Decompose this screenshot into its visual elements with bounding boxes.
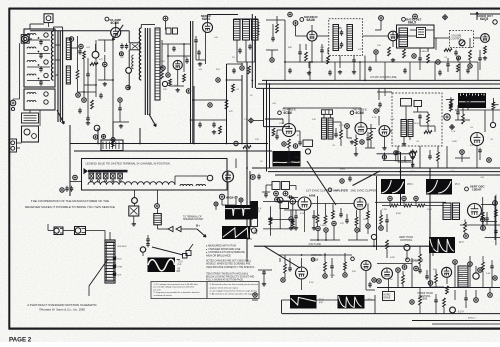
- svg-text:47K: 47K: [216, 69, 220, 71]
- svg-text:100K: 100K: [427, 209, 433, 211]
- svg-text:GRN: GRN: [118, 267, 123, 269]
- svg-text:10K: 10K: [312, 119, 316, 121]
- svg-text:A PHOTOFACT STANDARD NOTATION: A PHOTOFACT STANDARD NOTATION SCHEMATIC: [27, 303, 97, 307]
- svg-text:HORIZ: HORIZ: [384, 294, 392, 296]
- svg-text:6.8K: 6.8K: [486, 273, 491, 275]
- svg-text:56K: 56K: [433, 269, 437, 271]
- svg-text:2. Frequency was parallel for: 2. Frequency was parallel for schematics…: [154, 291, 201, 294]
- svg-text:4.7K: 4.7K: [372, 117, 377, 119]
- svg-text:2.2M: 2.2M: [382, 209, 387, 211]
- svg-text:BELOW LOOKING PRODUCTS SOCKET: BELOW LOOKING PRODUCTS SOCKET AND: [206, 276, 255, 279]
- svg-text:ITEM STRING TAKEN WITH VAC: ITEM STRING TAKEN WITH VACUUM &: [206, 272, 248, 275]
- svg-text:2ND SYNC CLIPPER: 2ND SYNC CLIPPER: [351, 188, 377, 192]
- svg-text:SPEAKER SOCKET: SPEAKER SOCKET: [183, 218, 204, 221]
- svg-text:47K: 47K: [99, 59, 103, 61]
- svg-text:B+: B+: [196, 224, 200, 228]
- svg-text:33K: 33K: [352, 271, 356, 273]
- svg-text:22K: 22K: [163, 89, 167, 91]
- svg-text:27K: 27K: [340, 223, 344, 225]
- svg-text:10K: 10K: [377, 45, 381, 47]
- svg-text:P-P: P-P: [319, 303, 323, 305]
- svg-text:6AL5: 6AL5: [311, 257, 319, 261]
- svg-text:P-P: P-P: [254, 234, 258, 236]
- svg-text:3. Measured values are those: 3. Measured values are those stated plus…: [210, 283, 259, 286]
- svg-text:820K: 820K: [396, 213, 402, 215]
- svg-text:100K: 100K: [452, 141, 458, 143]
- svg-text:6CB6: 6CB6: [284, 111, 293, 115]
- svg-text:1 MEG: 1 MEG: [420, 51, 427, 53]
- svg-text:6CB6: 6CB6: [111, 21, 120, 25]
- svg-text:P-P: P-P: [178, 265, 182, 267]
- svg-text:6AQ5: 6AQ5: [480, 17, 488, 21]
- svg-text:NOTES CHANGES ARE NOT USED IN: NOTES CHANGES ARE NOT USED IN ALL: [206, 260, 252, 263]
- svg-text:6.3 V: 6.3 V: [458, 311, 464, 314]
- svg-text:6AF4: 6AF4: [202, 17, 210, 21]
- svg-text:LEGEND: BLUE TIE GASTED TERMI: LEGEND: BLUE TIE GASTED TERMINAL IN CHAN…: [86, 162, 170, 166]
- svg-text:39K: 39K: [295, 157, 299, 159]
- svg-text:2.2K: 2.2K: [451, 131, 456, 133]
- svg-text:32 V: 32 V: [459, 242, 464, 244]
- svg-text:35 V: 35 V: [455, 184, 460, 186]
- svg-text:47K: 47K: [358, 49, 362, 51]
- svg-text:CONTROL: CONTROL: [400, 239, 413, 242]
- svg-text:1.5K: 1.5K: [244, 119, 249, 121]
- svg-text:BLK: BLK: [118, 275, 123, 277]
- svg-text:BLU: BLU: [118, 259, 123, 261]
- svg-text:8.2K: 8.2K: [309, 282, 314, 284]
- svg-text:as bottom of socket.: as bottom of socket.: [154, 294, 173, 297]
- svg-text:47K: 47K: [229, 111, 233, 113]
- svg-text:1.5K: 1.5K: [183, 57, 188, 59]
- svg-text:5%: 5%: [232, 57, 235, 59]
- svg-text:6AN8: 6AN8: [309, 194, 316, 197]
- svg-text:250V: 250V: [410, 171, 416, 173]
- svg-text:USED PROVIDE CORRECTLY THE SPE: USED PROVIDE CORRECTLY THE SPECIFIC: [206, 267, 255, 269]
- svg-text:250K: 250K: [422, 298, 428, 301]
- svg-text:1.5K: 1.5K: [390, 119, 395, 121]
- svg-text:VOLUME: VOLUME: [452, 36, 462, 38]
- svg-text:220K: 220K: [160, 61, 166, 63]
- svg-text:10K: 10K: [120, 57, 124, 59]
- svg-text:SD-07: SD-07: [414, 123, 421, 125]
- svg-text:47K: 47K: [470, 145, 474, 147]
- svg-text:165 V: 165 V: [407, 184, 413, 186]
- svg-text:7.5 V: 7.5 V: [178, 262, 184, 264]
- svg-text:6CB6: 6CB6: [356, 111, 365, 115]
- svg-text:HIGH OR BRILLIANCE: HIGH OR BRILLIANCE: [206, 254, 231, 257]
- svg-text:470K: 470K: [390, 257, 396, 259]
- svg-text:4. Low voltage measured at mi: 4. Low voltage measured at minimum usage…: [210, 289, 258, 292]
- svg-text:56K: 56K: [363, 219, 367, 221]
- svg-text:A786-m: A786-m: [468, 317, 476, 320]
- svg-text:1. DC voltage measurements ar: 1. DC voltage measurements are at 20,000…: [154, 283, 199, 286]
- svg-text:TO TERMINAL OF: TO TERMINAL OF: [183, 215, 202, 218]
- svg-text:68K: 68K: [288, 47, 292, 49]
- svg-text:original control alternate sig: original control alternate signal.: [210, 286, 239, 289]
- svg-text:RECEIVER MAKES IT POSSIBLE TO: RECEIVER MAKES IT POSSIBLE TO BRING YOU …: [25, 205, 115, 209]
- svg-text:DRIVE: DRIVE: [384, 297, 391, 299]
- svg-text:7.5 V: 7.5 V: [256, 209, 262, 211]
- svg-text:©Howard W. Sams & Co., Inc. 19: ©Howard W. Sams & Co., Inc. 1950: [39, 308, 85, 312]
- svg-text:MODELS. WHEN EDITED SCHEMES A: MODELS. WHEN EDITED SCHEMES ARE: [206, 263, 251, 266]
- svg-text:12BH7: 12BH7: [472, 188, 482, 192]
- svg-text:THE COOPERATION OF THE MANUFAC: THE COOPERATION OF THE MANUFACTURER OF T…: [31, 199, 109, 203]
- svg-text:115V: 115V: [247, 239, 253, 241]
- svg-text:120K: 120K: [330, 275, 336, 277]
- svg-text:per volt; AC voltage measured: per volt; AC voltage measured at 1,000 o…: [154, 286, 195, 289]
- svg-text:per volt.: per volt.: [154, 288, 162, 291]
- svg-text:275V: 275V: [340, 169, 346, 171]
- svg-text:LOW/POT: LOW/POT: [411, 258, 424, 262]
- svg-text:470K: 470K: [300, 213, 306, 215]
- svg-text:120K: 120K: [279, 123, 285, 125]
- svg-text:4.7K: 4.7K: [339, 125, 344, 127]
- svg-text:6AU6: 6AU6: [307, 18, 316, 22]
- svg-text:135V: 135V: [450, 171, 456, 173]
- svg-text:PAGE 2: PAGE 2: [9, 337, 32, 343]
- svg-text:22K: 22K: [255, 139, 259, 141]
- svg-text:BLK-RED: BLK-RED: [118, 246, 127, 248]
- svg-text:4.5 MC SOUND LINE: 4.5 MC SOUND LINE: [370, 75, 397, 79]
- svg-text:6AL5: 6AL5: [408, 21, 416, 25]
- svg-text:1 MEG: 1 MEG: [320, 225, 327, 227]
- svg-text:COLT LINE: COLT LINE: [309, 243, 322, 246]
- svg-text:P-P: P-P: [256, 212, 260, 214]
- svg-text:AMPLIFIER: AMPLIFIER: [333, 188, 348, 192]
